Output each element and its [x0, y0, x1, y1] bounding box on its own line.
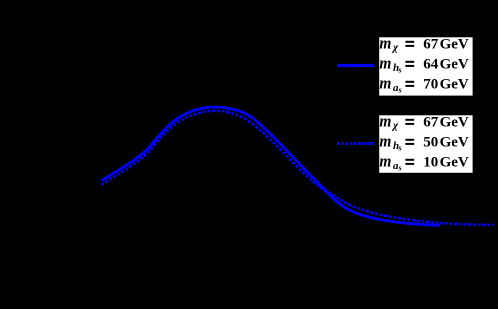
svg-text:s: s — [398, 164, 402, 173]
svg-text:m: m — [379, 132, 391, 151]
svg-text:GeV: GeV — [440, 155, 469, 171]
dashed curve — [101, 111, 493, 225]
svg-text:70: 70 — [423, 77, 438, 93]
svg-text:m: m — [379, 54, 391, 73]
svg-text:χ: χ — [391, 42, 399, 54]
svg-text:67: 67 — [423, 37, 439, 53]
svg-text:s: s — [398, 86, 402, 95]
svg-text:s: s — [398, 66, 402, 75]
legend 2 row 1: m_chi = 67 GeV — [379, 112, 469, 132]
legend 1 row 1: m_chi = 67 GeV — [379, 34, 469, 54]
svg-text:m: m — [379, 74, 391, 93]
svg-text:χ: χ — [391, 120, 399, 132]
legend 1 row 3: m_as = 70 GeV — [379, 74, 469, 95]
svg-text:50: 50 — [423, 135, 438, 151]
svg-text:67: 67 — [423, 115, 439, 131]
legend dashed line sample — [337, 142, 374, 145]
solid curve — [101, 107, 440, 225]
svg-text:s: s — [398, 144, 402, 153]
svg-text:GeV: GeV — [440, 57, 469, 73]
svg-text:GeV: GeV — [440, 135, 469, 151]
legend 1 row 2: m_hs = 64 GeV — [379, 54, 469, 75]
svg-text:GeV: GeV — [440, 37, 469, 53]
svg-text:GeV: GeV — [440, 77, 469, 93]
svg-text:m: m — [379, 112, 391, 131]
svg-text:10: 10 — [423, 155, 438, 171]
legend solid line sample — [337, 64, 374, 67]
svg-text:m: m — [379, 34, 391, 53]
svg-text:64: 64 — [423, 57, 439, 73]
legend 2 row 2: m_hs = 50 GeV — [379, 132, 469, 153]
legend box 1 — [379, 37, 472, 95]
svg-text:GeV: GeV — [440, 115, 469, 131]
legend 2 row 3: m_as = 10 GeV — [379, 152, 469, 173]
legend box 2 — [379, 115, 472, 173]
svg-text:m: m — [379, 152, 391, 171]
